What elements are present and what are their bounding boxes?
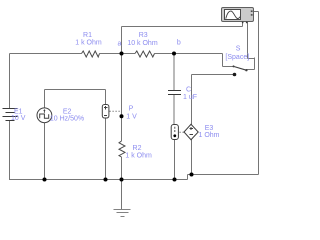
svg-text:a: a xyxy=(118,41,122,48)
junction dot ground xyxy=(120,178,124,182)
wire switch pole stub xyxy=(223,66,234,68)
switch S contact dot xyxy=(233,73,237,77)
wire scope channel B hook to blade xyxy=(247,69,255,71)
svg-text:1 V: 1 V xyxy=(126,114,137,121)
wire scope channel B hook down xyxy=(254,58,256,70)
wire scope channel A drop xyxy=(242,22,244,27)
svg-text:1 Ohm: 1 Ohm xyxy=(198,132,219,139)
wire ammeter probe bottom lead xyxy=(174,140,176,180)
junction dot E2 bottom xyxy=(43,178,47,182)
wire E2 top lead xyxy=(44,90,46,109)
svg-text:R2: R2 xyxy=(133,145,142,152)
svg-text:10 V: 10 V xyxy=(11,115,26,122)
junction dot probe bottom xyxy=(104,178,108,182)
wire E2 bottom lead xyxy=(44,123,46,181)
node b junction dot xyxy=(172,52,176,56)
node a junction dot xyxy=(120,52,124,56)
wire node b to switch corner xyxy=(174,53,223,55)
node P junction dot xyxy=(120,114,124,118)
resistor R2 xyxy=(119,141,125,157)
wire E3 top contact horizontal xyxy=(192,74,235,76)
wire left vertical above E1 xyxy=(9,54,11,109)
voltage generator E2 xyxy=(37,108,52,123)
battery E1 xyxy=(3,109,18,121)
wire scope right pin stub xyxy=(254,11,259,13)
switch S blade xyxy=(233,65,248,71)
svg-text:10 Hz/50%: 10 Hz/50% xyxy=(50,115,84,122)
ground xyxy=(114,180,131,217)
probe P xyxy=(102,105,120,119)
wire bottom right horizontal xyxy=(188,174,259,176)
ammeter probe (E3 control) xyxy=(171,125,184,140)
resistor R3 xyxy=(135,51,155,57)
svg-text:E3: E3 xyxy=(205,125,214,132)
wire capacitor to ammeter probe xyxy=(173,95,175,125)
wire scope channel A horizontal xyxy=(122,26,243,28)
wire E2 to probe P horizontal xyxy=(45,89,106,91)
svg-text:R1: R1 xyxy=(83,32,92,39)
capacitor C xyxy=(168,91,181,95)
wire node a down to R2 xyxy=(121,54,123,142)
wire node a riser xyxy=(121,27,123,54)
svg-text:C: C xyxy=(186,86,191,93)
svg-text:1 k Ohm: 1 k Ohm xyxy=(75,39,102,46)
wire scope channel B drop xyxy=(247,22,249,59)
wire probe P bottom lead xyxy=(105,118,107,180)
wire E3 top lead xyxy=(191,75,193,125)
svg-text:S: S xyxy=(236,45,241,52)
wire R2 bottom lead xyxy=(121,157,123,180)
wire left vertical below E1 xyxy=(9,121,11,181)
svg-text:[Space]: [Space] xyxy=(225,54,249,61)
oscilloscope OSC1 xyxy=(222,8,254,24)
wire switch pole drop xyxy=(222,54,224,67)
wire top horizontal left (E1 top to R1) xyxy=(10,53,82,55)
wire bottom horizontal main xyxy=(10,179,188,181)
wire probe P top lead xyxy=(105,90,107,105)
wire R1 to node a xyxy=(100,53,136,55)
wire scope channel B hook right xyxy=(248,58,255,60)
svg-text:1 k Ohm: 1 k Ohm xyxy=(125,152,152,159)
svg-text:R3: R3 xyxy=(139,32,148,39)
wire E3 bottom lead xyxy=(191,140,193,175)
svg-text:1 uF: 1 uF xyxy=(183,94,197,101)
svg-text:10 k Ohm: 10 k Ohm xyxy=(127,40,158,47)
controlled source E3 xyxy=(184,124,198,139)
junction dot ammeter bottom xyxy=(173,178,177,182)
svg-text:P: P xyxy=(129,105,134,112)
wire R3 to node b xyxy=(155,53,175,55)
wire bottom jog up xyxy=(187,175,189,180)
svg-text:b: b xyxy=(177,40,181,47)
resistor R1 xyxy=(82,51,100,57)
wire right vertical to scope xyxy=(258,12,260,175)
junction dot E3 bottom xyxy=(190,173,194,177)
wire node b down to capacitor xyxy=(173,54,175,91)
